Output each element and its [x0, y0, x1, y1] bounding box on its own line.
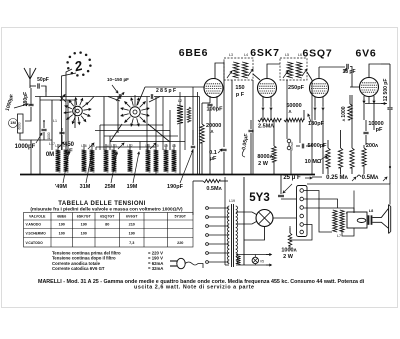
capacitor 0.05uF [248, 130, 253, 131]
tube 6SK7 [258, 79, 277, 98]
socket wires [66, 69, 72, 150]
resistor 50000 [284, 118, 304, 122]
svg-text:pF: pF [376, 127, 383, 133]
OT wires [307, 184, 390, 205]
0.1uF leader [218, 149, 222, 153]
wire x170 drop [169, 110, 171, 150]
svg-text:L16: L16 [81, 144, 87, 148]
diode det [191, 146, 195, 147]
wire grid H y87 [145, 86, 205, 88]
coil bank L11 [146, 150, 151, 172]
plug cord [198, 264, 203, 269]
tap wires left [192, 181, 194, 215]
svg-text:1M: 1M [10, 120, 16, 125]
resistor mid2 [350, 148, 354, 168]
wire 0.5M [193, 180, 203, 182]
svg-text:L10: L10 [153, 144, 159, 148]
wire x118 drop [117, 97, 119, 134]
svg-text:250pF: 250pF [288, 85, 305, 91]
6SK7 cathode drop [262, 110, 264, 120]
svg-text:L5: L5 [285, 53, 289, 57]
wire left drop x68 [67, 100, 69, 150]
speaker cone [373, 209, 389, 218]
svg-text:Corrente anodica totale: Corrente anodica totale [52, 261, 101, 266]
svg-text:'49M: '49M [55, 184, 67, 190]
capacitor 100pF [207, 104, 212, 105]
fono wires [288, 143, 290, 146]
svg-text:200ʌ: 200ʌ [366, 143, 379, 149]
capacitor 280pF [28, 104, 33, 105]
trimmer 10-150pF [119, 94, 120, 99]
svg-text:1000ʌ: 1000ʌ [281, 248, 297, 254]
svg-text:1000: 1000 [341, 106, 347, 117]
wire below-bus right [312, 176, 322, 178]
svg-text:V.CATODO: V.CATODO [26, 241, 44, 245]
tube 6SQ7 [310, 79, 329, 98]
left trimmer arrow [60, 95, 65, 102]
5Y3 bottom wire [244, 227, 265, 241]
svg-text:6BE6: 6BE6 [57, 215, 66, 219]
svg-text:100pF: 100pF [207, 107, 224, 113]
svg-text:10 MΩ: 10 MΩ [305, 159, 322, 165]
wire left H y100 [40, 99, 75, 101]
speaker pole pieces [368, 215, 370, 225]
svg-text:20000: 20000 [206, 123, 221, 129]
coil bank L18 [56, 150, 61, 172]
svg-text:6000: 6000 [18, 122, 22, 129]
label 0.5M left [203, 179, 220, 182]
svg-text:100: 100 [81, 232, 87, 236]
svg-text:VALVOLE: VALVOLE [29, 215, 46, 219]
svg-text:100: 100 [59, 232, 65, 236]
svg-text:V.SCHERMO: V.SCHERMO [26, 232, 47, 236]
IFT2 out wire [307, 72, 312, 80]
terminal strip [297, 186, 308, 237]
resistor mid1 [338, 148, 342, 168]
svg-text:6BE6: 6BE6 [179, 47, 208, 59]
wire x244 vert [243, 177, 245, 265]
svg-text:80: 80 [105, 223, 109, 227]
svg-text:V5: V5 [260, 260, 264, 264]
pilot lamp [252, 257, 258, 263]
wire x163 drop [162, 97, 164, 151]
6SK7 legs [262, 96, 264, 106]
6V6 grid wire [350, 86, 360, 88]
resistor 2.5M [258, 118, 281, 122]
svg-text:L18: L18 [55, 144, 61, 148]
tube 6BE6 [204, 79, 223, 98]
wire matrix h2 [95, 130, 170, 132]
6V6 legs [363, 96, 365, 104]
svg-text:6SK7: 6SK7 [250, 47, 279, 59]
svg-text:0M: 0M [46, 152, 54, 158]
pot 0.25M [326, 148, 330, 168]
wire x156 vert [155, 97, 157, 175]
180pF leader [308, 114, 311, 122]
wire far right rail [389, 166, 391, 168]
6BE6 grid wire [203, 87, 206, 88]
6SQ7 top wire [318, 67, 320, 79]
coil L2b [187, 107, 191, 122]
6BE6 plate wire [215, 63, 224, 79]
svg-text:L12: L12 [127, 144, 133, 148]
svg-text:= 220 V: = 220 V [148, 250, 163, 255]
power plug [177, 258, 185, 268]
coil L2 [177, 105, 183, 124]
svg-text:L6: L6 [298, 53, 302, 57]
svg-text:190: 190 [59, 223, 65, 227]
capacitor 285pF [151, 94, 152, 99]
ground bus [20, 174, 315, 176]
wire x197 vert [197, 92, 199, 174]
wire right rail lower [387, 108, 392, 109]
wire 1M loop [25, 117, 31, 121]
coil bank L9 [164, 150, 169, 172]
transformer secondary [236, 206, 238, 264]
IFT1 bottom wire [231, 80, 233, 174]
svg-text:TABELLA DELLE TENSIONI: TABELLA DELLE TENSIONI [58, 201, 145, 207]
svg-text:5000pF: 5000pF [308, 143, 328, 149]
svg-text:= 32mA: = 32mA [148, 266, 163, 271]
field choke [288, 233, 292, 246]
wire matrix h3 [104, 135, 178, 137]
wire left drop x46 [45, 86, 47, 97]
speaker mouth [388, 205, 390, 234]
speaker wires [346, 212, 347, 214]
svg-text:6SQ7GT: 6SQ7GT [100, 215, 115, 219]
svg-text:Λ: Λ [341, 118, 346, 121]
6SQ7 legs [314, 97, 316, 106]
IFT2 coil L5 [287, 62, 293, 78]
svg-text:6SQ7: 6SQ7 [302, 48, 332, 60]
svg-text:L15: L15 [89, 144, 95, 148]
svg-text:L19: L19 [229, 199, 235, 203]
fono jack [287, 139, 291, 143]
svg-text:5Y3GT: 5Y3GT [175, 215, 187, 219]
IFT2 trimmers [283, 71, 288, 78]
IFT1 trimmers [227, 71, 232, 78]
wire antenna to 280pF cap [30, 85, 36, 87]
svg-text:L17: L17 [63, 144, 69, 148]
svg-text:(misurate fra i piedini delle: (misurate fra i piedini delle valvole e … [30, 207, 183, 213]
svg-text:L11: L11 [145, 144, 150, 148]
svg-text:210: 210 [129, 223, 135, 227]
resistor 200 [362, 148, 366, 166]
wire matrix h4 [110, 141, 185, 143]
svg-text:V.ANODO: V.ANODO [26, 223, 42, 227]
wire left drop x52 [51, 100, 53, 150]
strip wires left [281, 198, 297, 200]
svg-text:6V6GT: 6V6GT [126, 215, 138, 219]
capacitor 0.1uF [221, 149, 226, 150]
transformer primary [228, 206, 230, 264]
tube 5Y3 [256, 210, 273, 227]
svg-text:L14: L14 [103, 144, 109, 148]
resistor 1M [18, 114, 24, 133]
speaker voice coil [357, 218, 366, 222]
resistor 8000 [272, 146, 276, 162]
svg-text:2 8 5 p F: 2 8 5 p F [156, 88, 176, 94]
IFT1 coil L3 [233, 62, 239, 78]
coil bank L16 [82, 150, 87, 172]
svg-text:0.25 Mʌ: 0.25 Mʌ [326, 175, 348, 181]
5Y3 wires [236, 212, 256, 215]
svg-text:Tensione continua prima del: Tensione continua prima del filtro [52, 250, 121, 255]
svg-text:L3: L3 [229, 53, 233, 57]
coil bank L15 [90, 150, 95, 172]
wire 1000pF leader [14, 104, 28, 109]
svg-text:6V6: 6V6 [355, 48, 376, 60]
svg-text:25 μ F: 25 μ F [283, 175, 301, 181]
coil bank L17 [64, 150, 69, 172]
svg-text:220: 220 [177, 241, 183, 245]
svg-text:Tensione continua dopo il fi: Tensione continua dopo il filtro [52, 256, 116, 261]
svg-text:L1: L1 [53, 119, 57, 123]
transformer core [231, 204, 233, 267]
svg-text:Λ: Λ [210, 129, 213, 134]
right box wires [290, 225, 312, 241]
wire 1000pF leader2 [36, 133, 42, 143]
svg-text:19M: 19M [127, 184, 138, 190]
190pF leader [180, 150, 193, 183]
svg-text:7,3: 7,3 [129, 241, 134, 245]
10M leader [320, 156, 327, 160]
svg-text:= 62mA: = 62mA [148, 261, 163, 266]
capacitor 50pF [38, 83, 39, 88]
6SK7 plate wire [267, 64, 280, 79]
svg-text:2 W: 2 W [258, 161, 269, 167]
wire x224 vert [223, 62, 225, 148]
tube socket top view [89, 64, 92, 67]
svg-text:FONO: FONO [290, 141, 294, 150]
wire x199 vert [199, 97, 201, 175]
switch long leads [108, 97, 120, 102]
6BE6 legs [209, 96, 211, 103]
wire matrix h5 [96, 146, 156, 148]
svg-text:Corrente catodica 6V6 GT: Corrente catodica 6V6 GT [52, 266, 105, 271]
trimmer arrows row [58, 142, 64, 148]
coil bank L13 [112, 150, 117, 172]
tube 6V6 [360, 78, 379, 97]
wire x147 vert [146, 97, 148, 151]
svg-text:μF: μF [210, 156, 217, 162]
wire right rail [389, 64, 391, 107]
0.05 leader [242, 150, 245, 157]
svg-text:L8: L8 [172, 144, 176, 148]
resistor 20000 [200, 124, 204, 143]
rotary band switch 2 [73, 106, 83, 116]
svg-text:25M: 25M [105, 184, 116, 190]
voltage table grid [24, 213, 194, 248]
IFT2 box [280, 58, 307, 80]
pilot wires [236, 254, 271, 256]
svg-text:0.5Mʌ: 0.5Mʌ [362, 175, 379, 181]
svg-text:1000: 1000 [47, 132, 51, 139]
output transformer [333, 210, 337, 232]
svg-text:190pF: 190pF [167, 184, 184, 190]
IFT1 coil L4 [242, 62, 248, 78]
wire left drop x75 [74, 100, 76, 128]
svg-text:0.5Mʌ: 0.5Mʌ [206, 186, 222, 192]
coil bank L10 [154, 150, 159, 172]
svg-text:150: 150 [235, 85, 244, 91]
svg-text:190: 190 [129, 232, 135, 236]
capacitor 10000pF [363, 132, 368, 133]
svg-text:31M: 31M [80, 184, 91, 190]
wire x104 drop [103, 97, 105, 151]
svg-text:L17: L17 [49, 142, 55, 146]
speaker magnet box [347, 212, 367, 228]
rotary band switch [130, 107, 140, 117]
svg-text:18 pF: 18 pF [342, 69, 355, 75]
6V6 plate wire [369, 64, 381, 78]
svg-text:2 W: 2 W [283, 254, 294, 260]
capacitor 450pF [59, 132, 64, 133]
svg-text:8000ʌ: 8000ʌ [257, 154, 273, 160]
6V6 leg drops [363, 104, 365, 121]
svg-text:50pF: 50pF [37, 77, 49, 83]
coil bank L8 [172, 150, 177, 172]
wire x193 vert [192, 87, 194, 145]
IFT1 out wire [253, 74, 260, 80]
svg-text:L9: L9 [164, 144, 168, 148]
svg-text:= 190 V: = 190 V [148, 256, 163, 261]
wire 50000 up [303, 110, 305, 120]
coil bank L12 [128, 150, 133, 172]
antenna [24, 68, 30, 79]
svg-text:L4: L4 [244, 53, 248, 57]
wire main H y96 [35, 96, 150, 98]
svg-text:Λ: Λ [288, 109, 291, 114]
coil bank L14 [104, 150, 109, 172]
terminal circles [300, 189, 304, 193]
svg-text:1000pF: 1000pF [15, 144, 36, 150]
svg-text:12 500 pF: 12 500 pF [383, 79, 389, 102]
IFT2 bottom wire [286, 80, 288, 139]
electro 25uF [280, 175, 282, 194]
svg-text:180pF: 180pF [308, 121, 325, 127]
resistor 1000 [348, 104, 352, 120]
wire left drop x40 [39, 97, 41, 175]
svg-text:uscita 2,6 watt. Note di servi: uscita 2,6 watt. Note di servizio a part… [134, 285, 255, 291]
speaker frame wires [353, 191, 355, 213]
svg-text:2.5MΛ: 2.5MΛ [258, 124, 274, 130]
capacitor 1000pF mid [41, 129, 46, 130]
svg-text:6SK7GT: 6SK7GT [77, 215, 92, 219]
svg-text:L8: L8 [369, 209, 373, 213]
bus label leaders [63, 152, 70, 183]
6SQ7 leg drops [314, 110, 316, 120]
IFT2 coil L6 [296, 62, 302, 78]
wire matrix h1 [100, 124, 163, 126]
transformer taps [209, 207, 230, 209]
IFT1 box [224, 58, 253, 80]
capacitor 18pF [347, 64, 348, 69]
capacitor 5000pF [302, 144, 303, 149]
switch2 leads [60, 97, 66, 103]
svg-text:5Y3: 5Y3 [249, 192, 269, 204]
svg-text:10~150 pF: 10~150 pF [107, 77, 129, 82]
svg-text:L13: L13 [111, 144, 117, 148]
svg-text:190: 190 [81, 223, 87, 227]
svg-text:p F: p F [236, 92, 245, 98]
svg-text:L7: L7 [337, 234, 341, 238]
wire x185 vert [184, 97, 186, 151]
